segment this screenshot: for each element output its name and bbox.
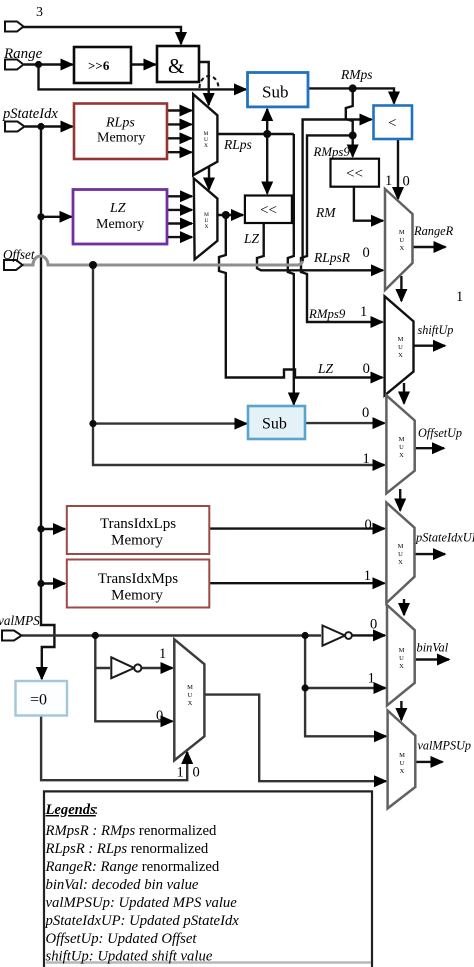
svg-text:M: M (398, 543, 404, 550)
svg-text:0: 0 (193, 765, 200, 781)
svg-text:U: U (398, 551, 403, 558)
svg-text:>>6: >>6 (88, 58, 110, 73)
svg-text:0: 0 (403, 174, 410, 190)
svg-text:Range: Range (3, 46, 43, 62)
svg-text::: : (94, 802, 98, 818)
svg-text:Sub: Sub (262, 83, 288, 102)
svg-text:RM: RM (315, 205, 336, 220)
svg-text:TransIdxMps: TransIdxMps (98, 571, 178, 587)
svg-text:X: X (204, 143, 208, 149)
svg-text:Memory: Memory (97, 131, 145, 146)
svg-text:1: 1 (177, 765, 184, 781)
svg-text:pStateIdxUP: pStateIdxUP (415, 531, 474, 545)
svg-text:0: 0 (365, 517, 372, 533)
svg-text:1: 1 (159, 646, 166, 662)
svg-text:RMpsR : RMps renormalized: RMpsR : RMps renormalized (45, 823, 218, 839)
svg-text:U: U (188, 692, 193, 699)
svg-text:X: X (399, 245, 404, 252)
svg-text:Legends: Legends (45, 802, 97, 818)
svg-text:U: U (398, 344, 403, 351)
svg-text:Sub: Sub (262, 416, 287, 433)
svg-text:<<: << (260, 203, 277, 219)
svg-text:3: 3 (36, 5, 43, 20)
svg-text:OffsetUp: Updated Offset: OffsetUp: Updated Offset (46, 931, 198, 947)
svg-text:LZ: LZ (109, 201, 126, 216)
svg-text:0: 0 (362, 405, 369, 421)
svg-text:0: 0 (156, 708, 163, 724)
svg-text:RMps9: RMps9 (313, 145, 351, 159)
svg-text:=0: =0 (30, 692, 47, 709)
svg-text:U: U (399, 237, 404, 244)
svg-text:X: X (205, 224, 209, 230)
svg-text:X: X (398, 559, 403, 566)
svg-text:RLpsR: RLpsR (313, 250, 351, 265)
svg-text:OffsetUp: OffsetUp (418, 426, 462, 440)
svg-text:RangeR: Range renormalized: RangeR: Range renormalized (45, 859, 220, 875)
svg-text:1: 1 (363, 451, 370, 467)
svg-text:&: & (168, 54, 184, 78)
svg-text:valMPS: valMPS (0, 613, 40, 628)
svg-text:0: 0 (363, 361, 370, 377)
svg-text:Offset: Offset (3, 247, 35, 262)
svg-text:RLpsR : RLps renormalized: RLpsR : RLps renormalized (45, 841, 209, 857)
svg-text:M: M (399, 229, 405, 236)
svg-text:LZ: LZ (317, 361, 334, 376)
svg-text:M: M (187, 684, 193, 691)
svg-text:X: X (398, 352, 403, 359)
svg-text:valMPSUp: valMPSUp (418, 739, 471, 753)
svg-text:valMPSUp: Updated MPS value: valMPSUp: Updated MPS value (46, 895, 238, 911)
svg-text:<: < (388, 116, 396, 132)
svg-text:shiftUp: Updated shift value: shiftUp: Updated shift value (46, 949, 213, 965)
svg-text:U: U (399, 655, 404, 662)
svg-text:1: 1 (368, 671, 375, 687)
svg-text:M: M (399, 436, 405, 443)
svg-text:Memory: Memory (111, 533, 163, 549)
svg-text:<<: << (346, 166, 363, 182)
svg-text:pStateIdx: pStateIdx (2, 106, 58, 122)
svg-text:RangeR: RangeR (413, 224, 454, 238)
svg-text:X: X (188, 700, 193, 707)
svg-text:binVal: binVal (417, 641, 449, 655)
svg-text:1: 1 (385, 173, 392, 189)
svg-text:U: U (400, 760, 405, 767)
svg-text:M: M (398, 336, 404, 343)
svg-text:TransIdxLps: TransIdxLps (100, 516, 176, 532)
svg-text:U: U (399, 444, 404, 451)
svg-text:M: M (399, 647, 405, 654)
svg-text:RLps: RLps (105, 116, 135, 131)
svg-text:M: M (399, 752, 405, 759)
svg-text:1: 1 (364, 568, 371, 584)
svg-text:shiftUp: shiftUp (418, 323, 454, 337)
svg-text:pStateIdxUP: Updated pStateIdx: pStateIdxUP: Updated pStateIdx (45, 913, 240, 929)
svg-text:0: 0 (370, 617, 377, 633)
svg-text:X: X (400, 768, 405, 775)
svg-text:1: 1 (456, 289, 463, 305)
svg-text:1: 1 (360, 304, 367, 320)
svg-text:Memory: Memory (96, 217, 144, 232)
svg-text:RMps9: RMps9 (308, 307, 346, 321)
svg-text:0: 0 (363, 245, 370, 261)
svg-text:Memory: Memory (111, 588, 163, 604)
svg-text:X: X (399, 663, 404, 670)
svg-text:LZ: LZ (243, 231, 260, 246)
svg-text:RMps: RMps (340, 67, 373, 82)
svg-text:RLps: RLps (223, 137, 252, 152)
svg-text:X: X (399, 452, 404, 459)
svg-text:binVal: decoded bin value: binVal: decoded bin value (46, 877, 199, 893)
